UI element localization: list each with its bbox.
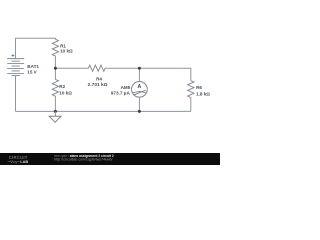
wire battery- down to bottom rail: [15, 76, 17, 112]
caption line 1: [54, 154, 114, 158]
resistor R2: [52, 79, 58, 96]
CircuitLab logo text: [9, 155, 28, 160]
R4 label: [96, 76, 102, 81]
ammeter AM5: [132, 81, 148, 97]
wire bottom rail: [16, 110, 191, 112]
BAT1 label: [27, 64, 39, 69]
BAT1 value 15 V: [27, 70, 37, 75]
wire R1 bottom through node A to R2 top: [54, 56, 56, 80]
wire battery+ to R1 top: [16, 38, 56, 58]
svg-text:A: A: [138, 84, 142, 90]
battery BAT1: [7, 59, 24, 76]
wire ammeter top stub: [138, 68, 140, 81]
R1 value 10 kOhm: [60, 49, 73, 54]
resistor R1: [52, 39, 58, 56]
svg-text:973.7 µA: 973.7 µA: [111, 90, 131, 95]
svg-text:R6: R6: [196, 85, 202, 90]
AM5 value 973.7 uA: [111, 90, 131, 95]
wire R4 right to R6 top corner: [105, 68, 191, 81]
svg-text:LAB: LAB: [20, 159, 28, 164]
junction node top of ammeter: [138, 67, 141, 70]
wire ammeter bottom stub: [138, 97, 140, 111]
R6 label: [196, 85, 202, 90]
AM5 label: [121, 85, 131, 90]
junction node A (R1/R2/R4): [54, 67, 57, 70]
wire R2 bottom to ground rail: [54, 96, 56, 111]
resistor R6: [188, 81, 194, 98]
R2 label: [59, 84, 65, 89]
CircuitLab logo squiggle: [8, 161, 20, 163]
svg-text:http://circuitlab.com/cqp6vtws: http://circuitlab.com/cqp6vtws74kw6/: [54, 157, 112, 161]
wire R6 bottom to bottom rail: [190, 97, 192, 111]
svg-text:R4: R4: [96, 76, 102, 81]
CircuitLab logo LAB: [20, 159, 28, 164]
svg-text:R2: R2: [59, 84, 65, 89]
svg-text:R1: R1: [60, 43, 66, 48]
junction node ground rail at R2: [54, 110, 57, 113]
R4 value 2.701 kOhm: [88, 82, 108, 88]
R1 label: [60, 43, 66, 48]
svg-text:10 kΩ: 10 kΩ: [59, 90, 72, 95]
svg-text:1.8 kΩ: 1.8 kΩ: [196, 91, 210, 96]
resistor R4: [88, 65, 105, 71]
wire node A to R4 left: [55, 67, 88, 69]
BAT1 plus sign: [12, 54, 15, 57]
junction node bottom of ammeter: [138, 110, 141, 113]
caption line 2 url: [54, 157, 112, 161]
svg-text:10 kΩ: 10 kΩ: [60, 49, 73, 54]
R6 value 1.8 kOhm: [196, 91, 210, 96]
svg-text:BAT1: BAT1: [27, 64, 39, 69]
svg-text:15 V: 15 V: [27, 70, 37, 75]
watermark bar: [0, 153, 220, 165]
ground: [49, 111, 61, 122]
svg-text:2.701 kΩ: 2.701 kΩ: [88, 82, 108, 88]
R2 value 10 kOhm: [59, 90, 72, 95]
